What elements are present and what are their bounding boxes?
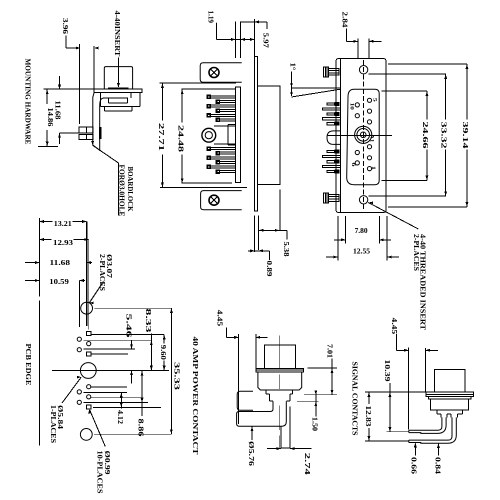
extension col A up	[79, 281, 81, 328]
face view shell outline	[336, 59, 386, 213]
dim 5.97 elbow	[266, 22, 268, 29]
signal contact barrel	[434, 370, 464, 393]
dim 5.97 line	[241, 20, 267, 23]
label 2-PLACES (holes)	[98, 254, 106, 291]
dim 39.14 line	[465, 64, 468, 207]
power contact side tab	[237, 391, 253, 410]
svg-text:4.12: 4.12	[116, 410, 124, 425]
dim 33.32 line	[444, 74, 447, 196]
dim 1.19 text	[207, 11, 215, 24]
rear view flange plate	[254, 57, 257, 211]
extension line 2.84 left	[357, 38, 359, 58]
power contact step2	[270, 394, 290, 401]
svg-text:5.97: 5.97	[262, 33, 270, 49]
dim 1 deg leader	[290, 72, 292, 97]
dim 2.84 right piece	[369, 40, 381, 43]
svg-text:1.50: 1.50	[311, 417, 319, 432]
rear view body	[257, 86, 280, 185]
footprint power centerline	[52, 370, 169, 372]
dim 4.45 text (power)	[216, 310, 224, 327]
dim 10.39 line	[388, 383, 391, 432]
dim 12.93 text	[53, 239, 74, 247]
svg-text:BOARDLOCK: BOARDLOCK	[126, 167, 134, 213]
svg-text:4-40INSERT: 4-40INSERT	[113, 11, 121, 57]
ext flange plane left (signal)	[365, 391, 427, 393]
dim 27.71 extension bottom	[160, 187, 247, 189]
dim 14.86 line	[46, 89, 49, 146]
ext line sq3	[91, 353, 128, 355]
svg-text:12.55: 12.55	[353, 248, 370, 256]
face view power tail	[327, 131, 340, 145]
dim 4.12 line	[120, 393, 123, 409]
dim 12.55 line right	[387, 256, 399, 259]
dim 3.96 text	[61, 18, 69, 35]
svg-text:7.01: 7.01	[325, 344, 333, 359]
side view insulator lines	[103, 92, 131, 103]
dim 7.01 line	[331, 359, 334, 395]
dim 0.89 line	[248, 249, 270, 252]
rear view top insert circle	[209, 68, 219, 78]
power contact centerline	[279, 336, 281, 390]
side view bracket	[93, 92, 103, 150]
ext line cB5	[91, 397, 142, 399]
dim 2.84 elbow	[346, 29, 358, 43]
dim 11.68 text	[54, 101, 62, 121]
dim 4.45 elbow (power)	[226, 328, 238, 339]
label BOARDLOCK	[126, 167, 134, 213]
power contact flange	[256, 368, 304, 372]
label 4-40 THREADED INSERT	[419, 234, 427, 330]
svg-text:4.45: 4.45	[216, 310, 224, 327]
extension tail tip plane (signal)	[407, 348, 409, 430]
svg-text:0.89: 0.89	[265, 261, 273, 278]
label 1-PLACES	[49, 405, 57, 443]
face view screw hole top	[359, 66, 367, 74]
side view flange	[94, 89, 142, 92]
dim 4.45 elbow (signal)	[396, 334, 408, 352]
dim 39.14 extensions	[388, 64, 467, 207]
dim 4.45 text (signal)	[390, 318, 398, 335]
dim 12.93 line	[39, 238, 88, 241]
signal contact body	[431, 399, 469, 410]
dim 39.14 text	[461, 122, 469, 150]
dim 11.68 stub top	[58, 76, 61, 89]
label FOR 3.0 HOLE	[118, 165, 126, 217]
dim 0.66 leader	[414, 443, 417, 456]
dim 7.01 text	[325, 344, 333, 359]
dim 2.84 text	[340, 12, 348, 29]
svg-text:7.80: 7.80	[355, 227, 368, 235]
signal lead 1	[409, 417, 446, 433]
dim 33.32 extensions	[369, 74, 446, 196]
ext line sq6	[93, 407, 161, 409]
svg-text:27.71: 27.71	[157, 123, 165, 152]
svg-text:3.96: 3.96	[61, 18, 69, 35]
dim 24.48 line	[181, 89, 184, 183]
face view top insert bolt	[324, 67, 339, 77]
svg-text:1°: 1°	[289, 63, 297, 71]
dim 5.46 text	[124, 314, 132, 339]
dim 1.50 text	[311, 417, 319, 432]
rear view insulator	[236, 87, 241, 183]
dim 10.59 text horizontal	[49, 278, 69, 286]
side view housing step 1	[100, 92, 140, 106]
face view D-insert	[347, 89, 380, 184]
ext line cA4	[84, 402, 149, 404]
dim 24.48 extension bottom	[182, 182, 233, 184]
svg-text:Ø5.76: Ø5.76	[247, 441, 255, 467]
footprint power hole	[80, 363, 96, 379]
label 4-40 INSERT	[113, 11, 121, 57]
side view housing step 2	[105, 107, 133, 112]
dim 24.66 line	[425, 91, 428, 181]
extension line boardlock lower	[60, 132, 79, 134]
svg-text:2.74: 2.74	[303, 453, 311, 476]
dim 12.55 text	[353, 248, 370, 256]
signal contact flange	[426, 392, 474, 397]
dim 10.59 line	[25, 279, 85, 282]
dim 5.38 text	[282, 242, 290, 258]
dim 1.50 line	[314, 390, 317, 416]
side view boardlock clip	[79, 127, 93, 139]
rear view top insert ear	[200, 63, 242, 83]
face view contact holes row 6-10	[355, 103, 359, 165]
dim 12.55 line left	[326, 256, 338, 259]
svg-text:9.60: 9.60	[159, 345, 167, 361]
svg-text:0.84: 0.84	[434, 457, 442, 475]
extension body right down	[279, 190, 281, 232]
dim 1.50 extension	[297, 401, 319, 403]
extension tail tip plane	[238, 334, 240, 424]
dim 9.60 text	[159, 345, 167, 361]
dim 0.84 text	[434, 457, 442, 475]
svg-text:2-PLACES: 2-PLACES	[98, 254, 106, 291]
dim 0.66 text	[410, 457, 418, 475]
dim 12.83 text	[364, 406, 372, 428]
face view bottom insert bolt	[324, 193, 339, 203]
ext line cA2	[84, 348, 136, 350]
rear view signal pin tails	[207, 95, 236, 173]
label 5.84	[56, 405, 64, 430]
svg-text:24.48: 24.48	[177, 125, 185, 153]
dim 11.68 stub bottom	[58, 133, 61, 144]
dim 3.96 leader	[66, 36, 80, 50]
dim 4.45 right piece (signal)	[426, 349, 438, 352]
label SIGNAL CONTACTS	[351, 362, 359, 436]
label MOUNTING HARDWARE	[23, 59, 31, 145]
footprint holes col A	[77, 337, 81, 404]
label PCB EDGE	[24, 344, 32, 386]
svg-text:39.14: 39.14	[461, 122, 469, 150]
pin label 5	[371, 98, 377, 102]
extension flange left (signal)	[425, 348, 427, 392]
svg-text:4.45: 4.45	[390, 318, 398, 335]
dim 5.38 line	[259, 229, 288, 232]
svg-text:5.46: 5.46	[124, 314, 132, 339]
label 40 AMP POWER CONTACT	[191, 337, 199, 455]
footprint centerline ext up	[87, 222, 89, 330]
side view insert bar (dark)	[108, 88, 129, 90]
face view contact holes row 1-5	[367, 98, 371, 170]
dim 0.89 elbow	[269, 251, 271, 260]
side view shell barrel	[104, 67, 132, 89]
svg-text:12.93: 12.93	[53, 239, 74, 247]
svg-text:40 AMP POWER CONTACT: 40 AMP POWER CONTACT	[191, 337, 199, 455]
ext line cA3	[84, 392, 128, 394]
dim 12.55 extensions	[338, 216, 387, 261]
svg-text:1: 1	[370, 166, 376, 170]
svg-text:24.66: 24.66	[421, 122, 429, 150]
face view screw hole bottom	[359, 196, 367, 204]
power contact barrel	[265, 345, 296, 368]
dim 8.86 line	[141, 371, 144, 416]
svg-text:11.68: 11.68	[50, 259, 71, 267]
svg-text:35.33: 35.33	[173, 362, 181, 391]
svg-text:10.39: 10.39	[383, 360, 391, 383]
dim 13.21 text	[54, 220, 72, 228]
label 10-PLACES	[96, 451, 104, 494]
dim 0.89 text	[265, 261, 273, 278]
svg-text:14.86: 14.86	[46, 108, 54, 128]
dim 24.66 extensions	[382, 91, 428, 181]
face view centerline vertical	[363, 60, 365, 211]
dim 1 deg text	[289, 63, 297, 71]
dim 5.38 elbow	[286, 230, 288, 239]
power contact pin arm	[237, 401, 287, 426]
extension flange right down	[258, 216, 260, 251]
dim 5.76 leader	[251, 427, 254, 441]
dim 1.19 elbow	[215, 23, 218, 40]
svg-text:SIGNAL CONTACTS: SIGNAL CONTACTS	[351, 362, 359, 436]
pin label 6	[350, 163, 356, 167]
power contact body	[258, 372, 302, 390]
footprint holes col B	[87, 331, 91, 409]
label 2-PLACES	[412, 234, 420, 271]
dim 11.68 text horizontal	[50, 259, 71, 267]
dim 5.46 stub bottom	[130, 371, 133, 384]
signal contact stub 1	[441, 414, 447, 418]
dim 8.86 text	[137, 419, 145, 438]
signal contact washer	[429, 397, 471, 399]
extension line flange plane left	[44, 88, 95, 90]
svg-text:12.83: 12.83	[364, 406, 372, 428]
extension flange left up	[253, 19, 255, 56]
ext arm1 tip	[387, 431, 409, 433]
face view power contact A1	[355, 126, 372, 143]
dim 11.68 line	[25, 261, 92, 264]
svg-text:6: 6	[350, 163, 356, 167]
label 0.99	[103, 451, 111, 476]
dim 7.80 line left	[334, 238, 346, 241]
leader 3.07 holes	[89, 282, 103, 305]
svg-text:1-PLACES: 1-PLACES	[49, 405, 57, 443]
svg-text:MOUNTING HARDWARE: MOUNTING HARDWARE	[23, 59, 31, 145]
svg-text:FORØ3.0HOLE: FORØ3.0HOLE	[118, 165, 126, 217]
extension line bracket bottom	[38, 146, 58, 148]
extension line flange face upper	[94, 46, 98, 89]
svg-text:33.32: 33.32	[440, 122, 448, 150]
rear view power contact	[202, 124, 236, 145]
ext line cB4	[91, 386, 127, 388]
svg-text:10-PLACES: 10-PLACES	[96, 451, 104, 494]
dim 10.39 text	[383, 360, 391, 383]
dim 7.01 extensions	[304, 368, 337, 395]
angle ref line	[291, 87, 340, 89]
dim 2.74 text	[303, 453, 311, 476]
dim 24.48 text	[177, 125, 185, 153]
leader 4-40 threaded insert	[368, 201, 418, 229]
face view pin tails	[322, 102, 340, 174]
dim 7.80 extensions	[346, 216, 380, 244]
pin label 10	[348, 103, 354, 110]
extension insulator left up	[235, 22, 237, 59]
signal contact neck	[437, 410, 463, 414]
signal contact stub 2	[451, 414, 457, 418]
dim 1.19 line	[217, 38, 255, 41]
dim 13.21 line	[39, 220, 86, 223]
svg-text:0.66: 0.66	[410, 457, 418, 475]
angle taper line	[291, 89, 340, 97]
leader 0.99 holes	[88, 409, 105, 446]
power contact step1	[266, 390, 293, 394]
dim 9.60 line	[163, 335, 166, 371]
extension insulator right up	[240, 22, 242, 59]
face view face plane line	[339, 59, 341, 213]
boardlock hole bottom	[80, 429, 92, 441]
power contact lead down	[280, 406, 291, 449]
dim 7.80 text	[355, 227, 368, 235]
extension line boardlock tip plane	[79, 44, 81, 124]
dim 24.66 text	[421, 122, 429, 150]
ext line sq1	[91, 334, 164, 336]
pin label 1	[370, 166, 376, 170]
svg-text:8.33: 8.33	[144, 309, 152, 334]
pin label A1	[369, 134, 375, 142]
extension flange left down	[254, 216, 256, 253]
dim 5.76 text	[247, 441, 255, 467]
dim 0.84 leader	[437, 444, 440, 456]
side view boardlock body (dark)	[99, 127, 101, 139]
svg-text:2-PLACES: 2-PLACES	[412, 234, 420, 271]
leader arrow at bracket tip	[91, 141, 94, 145]
dim 35.33 extensions	[94, 308, 171, 434]
svg-text:11.68: 11.68	[54, 101, 62, 121]
label 3.07	[105, 254, 113, 279]
dim 24.48 extension top	[182, 88, 237, 90]
ext arm2 tip	[365, 440, 409, 442]
dim 7.80 line right	[379, 238, 391, 241]
rear view bottom insert ear	[201, 191, 242, 210]
ext line cA1	[84, 339, 152, 341]
svg-text:1.19: 1.19	[207, 11, 215, 24]
svg-text:PCB EDGE: PCB EDGE	[24, 344, 32, 386]
dim 8.33 text	[144, 309, 152, 334]
dim 8.33 line	[150, 334, 153, 371]
dim 27.71 text	[157, 123, 165, 152]
dim 4.12 text	[116, 410, 124, 425]
svg-text:10: 10	[348, 103, 354, 110]
dim 27.71 line	[161, 83, 164, 187]
leader for 4-40 INSERT	[117, 58, 120, 88]
face view centerline horizontal	[327, 135, 392, 137]
svg-text:A1: A1	[369, 134, 375, 142]
dim 2.74 line	[267, 447, 312, 450]
svg-text:10.59: 10.59	[49, 278, 69, 286]
leader 5.84 hole	[62, 376, 81, 403]
svg-text:13.21: 13.21	[54, 220, 72, 228]
dim 35.33 text	[173, 362, 181, 391]
extension line 2.84 right	[368, 38, 370, 58]
dim 33.32 text	[440, 122, 448, 150]
leader line to BOARDLOCK label	[93, 145, 119, 215]
dim 35.33 line	[170, 308, 173, 434]
dim 5.46 stub top	[130, 340, 133, 349]
boardlock hole top	[81, 302, 93, 314]
extension flange left (power)	[255, 334, 257, 368]
dim 12.83 line	[367, 392, 370, 441]
dim 14.86 text	[46, 108, 54, 128]
svg-text:5.38: 5.38	[282, 242, 290, 258]
dim 4.45 right piece (power)	[256, 336, 267, 339]
dim 27.71 extension top	[159, 82, 236, 84]
rear view bottom insert circle	[209, 195, 219, 205]
svg-text:5: 5	[371, 98, 377, 102]
svg-text:2.84: 2.84	[340, 12, 348, 29]
pcb edge line	[38, 218, 40, 446]
signal lead 2	[409, 417, 457, 443]
dim 5.97 text	[262, 33, 270, 49]
